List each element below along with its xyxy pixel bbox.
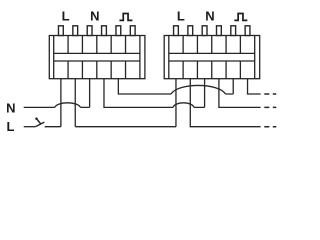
svg-text:N: N	[6, 100, 15, 115]
wire X1 pin2 down	[74, 79, 76, 127]
pulse symbol of X1	[119, 14, 132, 21]
crossover arc pulse over X2 T1-T4	[171, 85, 226, 94]
X1 pin 3	[87, 26, 92, 36]
svg-text:L: L	[177, 9, 185, 24]
X2 pin 4	[217, 26, 222, 36]
switch S1 actuator	[37, 119, 42, 125]
terminal block X2 outline	[164, 36, 260, 79]
continuation dashes pulse	[264, 93, 276, 95]
terminal block X1 inner side walls	[54, 36, 140, 79]
crossover hump N over X2 T1 T2	[173, 103, 194, 108]
X1 pin 1	[58, 26, 63, 36]
X2 pin 5	[231, 26, 236, 36]
wire L bus X1 to X2 pin1	[75, 79, 176, 127]
X1 pin 6	[130, 26, 135, 36]
terminal block X2 bus-bar band	[169, 53, 255, 61]
wire L mains feed	[24, 126, 36, 128]
svg-text:L: L	[62, 9, 70, 24]
wire X2 pin4 N continuation	[219, 79, 261, 108]
X1 pin 4	[102, 26, 107, 36]
wire N mains feed	[24, 106, 55, 108]
X1 pin 5	[116, 26, 121, 36]
wire X2 pin6 pulse continuation	[248, 79, 261, 94]
pulse symbol of X2	[234, 14, 247, 21]
svg-text:N: N	[90, 9, 99, 24]
terminal block X1 bus-bar band	[54, 53, 140, 61]
wire N bus to X2 pin3	[194, 79, 205, 108]
terminal block X1 cell dividers	[68, 36, 125, 79]
switch S1 lever	[35, 122, 44, 127]
terminal block X1 outline	[49, 36, 145, 79]
X2 pin 3	[202, 26, 207, 36]
continuation dashes L	[264, 126, 276, 128]
wire L switch to X1 pin1	[45, 79, 61, 127]
wire N to X1 pin3	[80, 79, 89, 108]
crossover hump N over X1 T1 T2	[55, 103, 81, 108]
switch S1 actuator knob	[35, 117, 38, 120]
X2 pin 2	[188, 26, 193, 36]
wire X2 pin2 L continuation	[190, 79, 260, 127]
svg-text:N: N	[205, 9, 214, 24]
wire X1 pin4 to N bus	[104, 79, 173, 108]
svg-text:L: L	[7, 119, 15, 134]
X1 pin 2	[73, 26, 78, 36]
terminal block X2 cell dividers	[183, 36, 240, 79]
wire X1 pin5 to pulse bus	[118, 79, 171, 94]
wire pulse bus to X2 pin5	[226, 79, 234, 94]
X2 pin 1	[174, 26, 179, 36]
continuation dashes N	[264, 106, 276, 108]
X2 pin 6	[245, 26, 250, 36]
terminal block X2 inner side walls	[169, 36, 255, 79]
